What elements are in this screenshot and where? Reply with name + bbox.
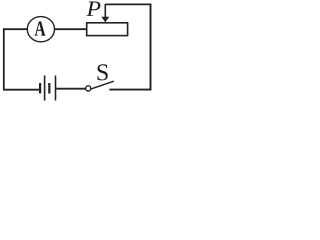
battery cell2 positive long plate [55, 76, 57, 101]
wire top horizontal from wiper to right side [105, 3, 151, 5]
switch S pivot circle [86, 86, 91, 91]
wire battery to switch [56, 88, 86, 90]
ammeter U1 circle [27, 17, 54, 42]
battery cell1 negative short plate [39, 83, 41, 94]
rheostat P body [87, 23, 128, 36]
label P [86, 1, 100, 15]
wire bottom-right horizontal to switch [109, 89, 151, 91]
background [0, 0, 156, 102]
wire top-left horizontal to ammeter [3, 28, 29, 30]
rheostat wiper arrowhead [101, 17, 109, 23]
ammeter label A [35, 21, 46, 35]
wire right vertical [150, 4, 152, 91]
wire ammeter to rheostat [55, 28, 88, 30]
battery cell2 negative short plate [48, 83, 50, 94]
label S [98, 64, 108, 80]
rheostat wiper arrow shaft [104, 4, 106, 18]
wire left vertical [3, 28, 5, 90]
battery cell1 positive long plate [44, 76, 46, 101]
wire bottom-left horizontal to battery [3, 89, 39, 91]
switch S blade [91, 81, 114, 89]
